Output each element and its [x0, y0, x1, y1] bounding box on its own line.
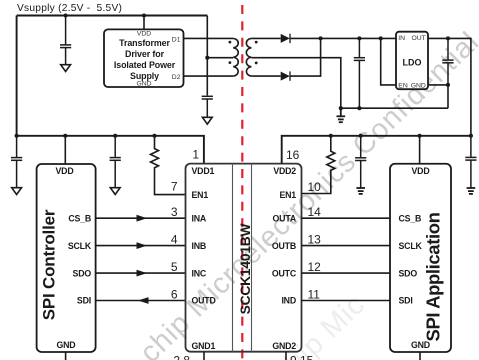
capacitor C1: [60, 16, 71, 65]
capacitor C3: [354, 38, 365, 108]
svg-text:SPI Application: SPI Application: [423, 212, 444, 341]
wire OUTC to SDO: [302, 272, 391, 274]
ground G5: [110, 188, 120, 195]
wire D4 to rail: [290, 38, 321, 76]
node secondary ground: [339, 106, 343, 110]
svg-text:OUTB: OUTB: [272, 241, 296, 251]
svg-text:SDI: SDI: [77, 296, 91, 306]
svg-text:IN: IN: [398, 35, 405, 42]
svg-text:GND1: GND1: [192, 341, 216, 351]
wire center tap: [207, 57, 233, 59]
svg-text:SCLK: SCLK: [68, 241, 92, 251]
svg-text:VDD: VDD: [412, 166, 430, 176]
resistor R2: [302, 136, 335, 194]
node bus R2: [329, 134, 333, 138]
svg-text:GND: GND: [411, 82, 426, 89]
wire center tap vertical: [206, 16, 208, 96]
transformer T1 secondary: [246, 38, 251, 76]
svg-text:VDD2: VDD2: [273, 166, 296, 176]
wire left vertical: [16, 16, 18, 136]
svg-text:GND: GND: [136, 81, 151, 88]
svg-text:4: 4: [171, 233, 178, 247]
node bus R1: [152, 134, 156, 138]
svg-text:Vsupply (2.5V - 5.5V): Vsupply (2.5V - 5.5V): [17, 3, 122, 14]
wire D1: [184, 37, 234, 39]
svg-text:EN1: EN1: [192, 190, 209, 200]
svg-text:GND: GND: [57, 340, 76, 350]
arrow SDI: [138, 297, 149, 304]
node EN feed: [379, 36, 383, 40]
wire SDO to INC: [96, 272, 186, 274]
ground G3: [337, 108, 346, 122]
U1 inner line left: [232, 164, 234, 352]
svg-text:LDO: LDO: [403, 57, 422, 67]
svg-text:14: 14: [308, 205, 322, 219]
svg-text:3: 3: [171, 205, 178, 219]
node bus VDD: [63, 134, 67, 138]
T1 primary dot 1: [229, 41, 232, 44]
wire top VDD rail: [17, 15, 208, 17]
wire EN feed: [381, 38, 396, 85]
wire GND1: [203, 352, 205, 360]
wire secondary top: [251, 37, 280, 39]
node center tap: [205, 56, 209, 60]
svg-text:IND: IND: [281, 296, 296, 306]
svg-text:CS_B: CS_B: [399, 213, 422, 223]
wire U3 GND: [428, 85, 448, 108]
wire U2 VDD: [143, 16, 145, 30]
wire app GND: [419, 352, 421, 360]
T1 secondary dot 1: [255, 41, 258, 44]
wire secondary ground rail: [341, 107, 448, 109]
wire OUTA to CS_B: [302, 217, 391, 219]
svg-text:VDD: VDD: [56, 166, 74, 176]
svg-text:INC: INC: [192, 268, 207, 278]
capacitor C7: [355, 136, 366, 188]
svg-text:Driver for: Driver for: [125, 49, 165, 59]
svg-text:Isolated Power: Isolated Power: [114, 60, 176, 70]
wire right VDD2 bus: [282, 136, 471, 164]
node bus app VDD: [418, 134, 422, 138]
svg-text:OUTC: OUTC: [272, 268, 297, 278]
wire SPI controller VDD: [64, 136, 66, 164]
wire OUT rail: [428, 38, 471, 135]
svg-text:INB: INB: [192, 241, 207, 251]
node C4 bottom: [446, 83, 450, 87]
svg-text:9,15: 9,15: [290, 354, 314, 360]
node C3 top: [357, 36, 361, 40]
node C4 top: [446, 36, 450, 40]
svg-text:VDD: VDD: [137, 31, 151, 38]
svg-text:2,8: 2,8: [173, 354, 190, 360]
wire OUTD to SDI: [96, 300, 186, 302]
svg-text:EN1: EN1: [279, 190, 296, 200]
svg-text:SDI: SDI: [399, 296, 413, 306]
ground G7: [467, 188, 476, 194]
wire secondary common: [251, 58, 340, 108]
svg-text:5: 5: [171, 260, 178, 274]
svg-text:6: 6: [171, 288, 178, 302]
wire app VDD: [419, 136, 421, 164]
node bus right end: [469, 134, 473, 138]
svg-text:EN: EN: [398, 82, 408, 89]
node bus C6: [113, 134, 117, 138]
capacitor C5: [11, 136, 22, 188]
node C3 bottom: [357, 106, 361, 110]
U1 inner line right: [251, 164, 253, 352]
wire secondary bottom: [251, 75, 280, 77]
regulator U3 LDO: [396, 32, 428, 89]
SPI application block: [390, 164, 451, 352]
ground G1: [61, 65, 71, 72]
svg-text:7: 7: [171, 180, 178, 194]
wire OUTB to SCLK: [302, 245, 391, 247]
wire IND to SDI: [302, 300, 391, 302]
wire CS_B to INA: [96, 217, 186, 219]
svg-text:SCCK1401BW: SCCK1401BW: [238, 222, 253, 314]
label U2 body: [114, 38, 176, 81]
arrow SDO: [137, 270, 148, 277]
svg-text:16: 16: [286, 148, 300, 162]
svg-text:OUTA: OUTA: [273, 213, 297, 223]
svg-text:OUTD: OUTD: [192, 296, 216, 306]
svg-text:D1: D1: [172, 36, 181, 43]
wire left VDD1 bus: [17, 136, 204, 164]
T1 primary dot 2: [229, 61, 232, 64]
svg-text:10: 10: [308, 180, 322, 194]
svg-text:SDO: SDO: [73, 268, 92, 278]
capacitor C2: [202, 96, 213, 117]
node bus left end: [15, 134, 19, 138]
resistor R1: [151, 136, 186, 195]
isolation barrier: [241, 5, 243, 360]
SPI controller block: [37, 164, 96, 352]
transformer T1 primary: [233, 38, 238, 76]
svg-text:INA: INA: [192, 213, 207, 223]
transformer driver U2: [104, 29, 184, 87]
node rectifier join: [319, 36, 323, 40]
svg-text:Supply: Supply: [130, 71, 159, 81]
ground G2: [202, 117, 212, 124]
svg-text:SCLK: SCLK: [399, 241, 423, 251]
ground G4: [12, 188, 22, 195]
svg-text:SPI Controller: SPI Controller: [40, 209, 59, 320]
svg-text:VDD1: VDD1: [192, 166, 215, 176]
svg-text:13: 13: [308, 233, 322, 247]
svg-text:Transformer: Transformer: [119, 38, 170, 48]
arrow SCLK: [137, 242, 148, 249]
T1 secondary dot 2: [255, 62, 258, 65]
svg-text:SDO: SDO: [399, 268, 418, 278]
node bus C7: [359, 134, 363, 138]
svg-text:GND2: GND2: [272, 341, 296, 351]
svg-text:12: 12: [308, 260, 322, 274]
svg-text:OUT: OUT: [411, 35, 425, 42]
wire SCLK to INB: [96, 245, 186, 247]
ground G6: [356, 188, 365, 194]
diode D3: [281, 34, 290, 43]
node top rail cap junction: [64, 13, 68, 17]
wire GND2: [285, 352, 287, 360]
arrow CS_B: [137, 215, 148, 222]
capacitor C8: [465, 136, 476, 188]
node top rail VDD junction: [142, 13, 146, 17]
capacitor C6: [110, 136, 121, 188]
svg-text:1: 1: [192, 148, 199, 162]
svg-text:11: 11: [308, 288, 321, 302]
wire D2: [184, 75, 234, 77]
wire controller GND: [65, 352, 67, 360]
isolator U1: [186, 164, 302, 352]
diode D4: [281, 71, 290, 80]
wire IN rail: [290, 37, 396, 39]
svg-text:CS_B: CS_B: [68, 213, 91, 223]
svg-text:D2: D2: [172, 74, 181, 81]
capacitor C4: [442, 38, 453, 85]
